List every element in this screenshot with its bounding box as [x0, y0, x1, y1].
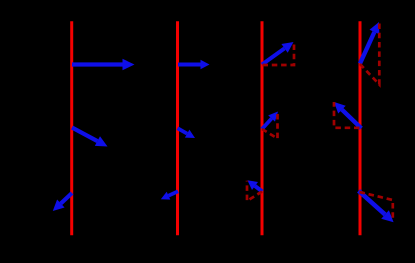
vector E2b (down-right): [178, 128, 188, 133]
vector E4b (up-left): [342, 110, 361, 129]
dashed components of E4c: [360, 192, 393, 222]
vector E3a (up-right): [262, 48, 285, 64]
axis line 3 (t3): [261, 21, 264, 235]
axis line 4 (t4): [359, 21, 362, 235]
vector E1b (down-right): [72, 128, 97, 142]
vector E1a (right): [72, 62, 123, 66]
dashed components of E3c: [247, 181, 262, 201]
vector E3c (up-left): [255, 186, 262, 192]
vector E3b (up-right): [262, 119, 272, 130]
vector E2c (down-left): [169, 191, 179, 195]
dashed components of E3b: [262, 113, 278, 139]
axis line 1 (t1): [70, 21, 73, 235]
dashed components of E3a: [263, 43, 295, 65]
dashed components of E4a: [360, 23, 379, 85]
vector E1c (down-left): [61, 193, 72, 204]
axis line 2 (t2): [176, 21, 179, 235]
vector E4c (down-right): [359, 191, 385, 215]
dashed components of E4b: [334, 102, 360, 128]
vector E2a (right): [178, 63, 201, 67]
vector E4a (up-right steep): [360, 32, 374, 64]
